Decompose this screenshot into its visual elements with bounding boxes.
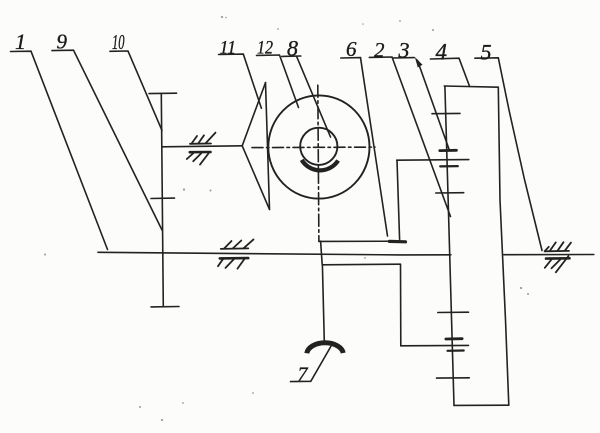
gear bar 1 (432, 112, 460, 114)
svg-text:9: 9 (57, 30, 68, 54)
svg-text:8: 8 (287, 36, 298, 61)
svg-text:11: 11 (220, 38, 237, 59)
U-link below main shaft: top horizontal (322, 263, 400, 266)
left vertical shaft (161, 93, 163, 306)
gear cap upper mesh (440, 149, 457, 152)
svg-text:4: 4 (436, 40, 448, 65)
vertical dash-dot centerline through drum (318, 85, 319, 241)
gearbox frame bottom edge (454, 404, 509, 406)
leader line 12 (257, 55, 299, 108)
gear bar top cap on left shaft (149, 92, 177, 94)
leader line 9 (52, 50, 162, 230)
gear bar 3 (438, 311, 469, 313)
long gear bar / rod top (397, 159, 469, 162)
svg-text:5: 5 (481, 40, 492, 65)
svg-text:12: 12 (257, 38, 273, 59)
scan specks (44, 16, 529, 421)
short link from centerline to main line (321, 241, 323, 265)
brake shoe arc under inner circle (302, 160, 338, 170)
horizontal link line above main shaft (319, 240, 400, 242)
cone (bevel pulley) (242, 83, 265, 146)
leader line 11 (219, 54, 262, 108)
leader line 6 (341, 58, 388, 236)
leader line 8 (282, 55, 301, 57)
horizontal dash-dot centerline through drum (252, 146, 375, 149)
input shaft (162, 146, 242, 147)
gear bar 4 (437, 377, 470, 379)
svg-text:6: 6 (346, 37, 357, 61)
leader line 10 (110, 51, 162, 131)
svg-text:7: 7 (298, 364, 309, 386)
leader line 5 (475, 58, 542, 251)
bearing support on input shaft (upper hatch) (190, 133, 216, 144)
svg-text:3: 3 (398, 38, 410, 63)
U-link right vertical (400, 264, 402, 346)
gear shaft vertical (right gearbox) (445, 86, 454, 405)
main shaft centerline (right segment) (504, 254, 594, 256)
svg-text:2: 2 (374, 38, 385, 62)
bearing support on main shaft right (upper hatch) (545, 242, 571, 251)
bearing support on input shaft (lower hatch) (187, 152, 211, 165)
leader line 3 (393, 57, 415, 59)
gear bar small below lower mesh (448, 349, 464, 351)
arrowhead on leader 3 (415, 57, 423, 68)
leader line 4 (430, 58, 469, 86)
drum inner circle (300, 128, 337, 165)
gear bar 2 (436, 192, 464, 194)
bearing support on main shaft right (lower hatch) (545, 256, 570, 272)
U-link lower horizontal to gear shaft (401, 344, 469, 346)
shifter rod bottom hook (390, 240, 406, 244)
svg-text:10: 10 (112, 30, 125, 54)
leader line 1 (11, 51, 108, 249)
gear bar small below mesh (440, 165, 458, 167)
gear bar mid tick on left shaft (151, 197, 175, 199)
bearing support on main shaft left (lower hatch) (218, 258, 248, 269)
shifter rod vertical (397, 160, 400, 239)
brake shoe arc 7 (307, 343, 343, 353)
gearbox frame right edge (498, 87, 509, 405)
main shaft centerline (left segment) (98, 252, 451, 255)
gear cap lower mesh (446, 337, 462, 340)
leader line 2 (369, 57, 450, 217)
bearing support on main shaft left (upper hatch) (221, 239, 254, 249)
svg-text:1: 1 (15, 29, 26, 54)
leader line 7 (291, 346, 331, 381)
brake hanger vertical to arc 7 (322, 265, 324, 342)
gear bar bottom cap on left shaft (151, 306, 179, 308)
gearbox frame top edge (444, 86, 498, 87)
drum outer circle (268, 95, 369, 198)
